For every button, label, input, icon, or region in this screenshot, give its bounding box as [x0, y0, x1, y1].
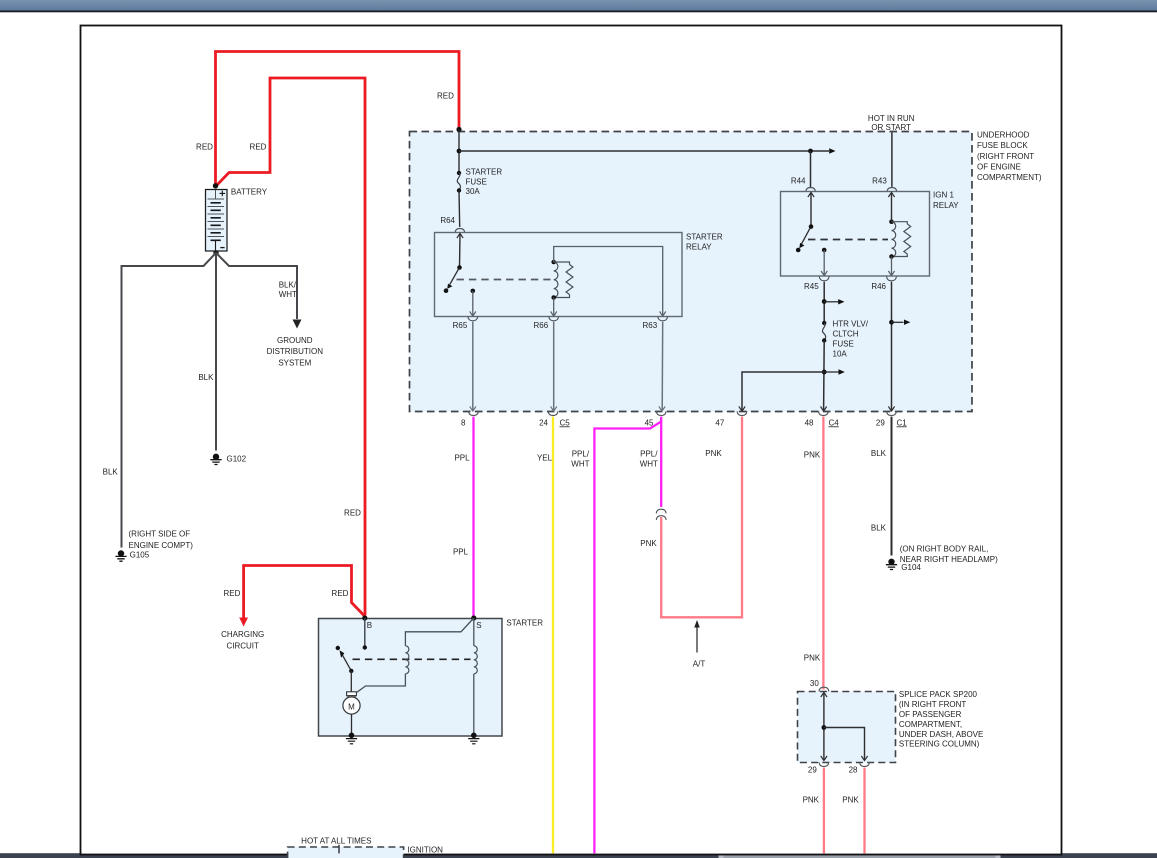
svg-text:HOT IN RUN: HOT IN RUN [868, 114, 915, 123]
svg-text:BATTERY: BATTERY [231, 188, 268, 197]
wire BLK pin29 to G104 [871, 417, 892, 556]
pins R45 R46 [804, 277, 896, 291]
ground G102 [210, 454, 246, 464]
svg-text:OF PASSENGER: OF PASSENGER [899, 710, 962, 719]
svg-text:RED: RED [223, 589, 240, 598]
red entry node on fuse block border [456, 127, 461, 132]
battery - terminal node [213, 250, 218, 255]
svg-text:RELAY: RELAY [686, 243, 712, 252]
wires relay pins down to block bottom [470, 322, 665, 411]
svg-text:IGN 1: IGN 1 [933, 191, 954, 200]
starter relay coil feeds [551, 247, 666, 317]
svg-text:BLK: BLK [871, 449, 887, 458]
svg-text:OF ENGINE: OF ENGINE [977, 162, 1021, 171]
svg-text:30: 30 [810, 679, 819, 688]
svg-text:RED: RED [344, 509, 361, 518]
svg-text:(RIGHT FRONT: (RIGHT FRONT [977, 152, 1034, 161]
wire PNK pin48 to splice pack [804, 417, 824, 690]
battery + terminal node [213, 183, 218, 188]
svg-text:PNK: PNK [803, 795, 820, 804]
wire YEL pin24 down off page [537, 417, 553, 854]
svg-text:BLK: BLK [871, 524, 887, 533]
svg-text:(IN RIGHT FRONT: (IN RIGHT FRONT [899, 700, 967, 709]
wire branch to pin 47 [739, 372, 824, 411]
wire fuse to pin 48 with branch [821, 341, 845, 412]
wire BLK to G102 [198, 253, 216, 451]
svg-text:STARTER: STARTER [506, 618, 543, 627]
svg-text:COMPARTMENT,: COMPARTMENT, [899, 720, 962, 729]
svg-text:WHT: WHT [640, 459, 658, 468]
svg-text:PNK: PNK [705, 449, 722, 458]
svg-text:BLK: BLK [198, 373, 214, 382]
starter relay dashed actuator line [457, 279, 551, 281]
starter box [319, 618, 544, 736]
IGN1 coil feeds [888, 193, 894, 276]
starter dashed actuator line [353, 658, 471, 660]
svg-text:G105: G105 [130, 551, 150, 560]
svg-text:YEL: YEL [537, 454, 553, 463]
svg-text:R45: R45 [804, 282, 819, 291]
pins R44 R43 [791, 177, 897, 192]
A/T annotation arrow [693, 620, 706, 669]
ground G104 [886, 545, 998, 572]
wire BLK/WHT to ground distribution [216, 253, 323, 368]
wire from entry node to starter fuse [458, 130, 460, 173]
starter B terminal [362, 615, 372, 649]
svg-text:RED: RED [437, 92, 454, 101]
svg-text:PNK: PNK [804, 653, 821, 662]
R46 wire to pin 29 with branch arrow [888, 282, 910, 411]
IGN 1 relay box [781, 191, 960, 277]
svg-text:B: B [367, 621, 372, 630]
IGN1 relay dashed actuator line [808, 239, 888, 241]
svg-text:PPL: PPL [453, 547, 469, 556]
svg-text:STARTER: STARTER [686, 232, 723, 241]
HTR VLV/CLTCH fuse 10A [822, 320, 869, 359]
starter relay box [435, 232, 723, 316]
battery [206, 183, 268, 255]
splice pack internal wires [821, 693, 868, 761]
svg-text:47: 47 [715, 418, 724, 427]
svg-text:30A: 30A [466, 187, 481, 196]
starter motor M [343, 671, 360, 744]
svg-text:GROUND: GROUND [277, 336, 313, 345]
branch wire to IGN1 relay R44 feed [459, 148, 836, 187]
wire PNK from connector to pin 47 (A/T loop) [640, 417, 742, 618]
svg-text:A/T: A/T [693, 660, 706, 669]
svg-text:C5: C5 [560, 418, 571, 427]
svg-text:PPL/: PPL/ [640, 449, 658, 458]
node at feed branch [457, 149, 462, 154]
bottom scrollbar bar [0, 853, 1157, 858]
svg-text:RED: RED [250, 142, 267, 151]
svg-text:FUSE: FUSE [833, 340, 854, 349]
svg-text:R64: R64 [440, 216, 455, 225]
splice pack SP200 [798, 679, 984, 763]
svg-text:8: 8 [461, 418, 466, 427]
wire BLK to G105 [103, 253, 216, 548]
svg-text:RED: RED [332, 589, 349, 598]
svg-text:IGNITION: IGNITION [407, 846, 443, 855]
pins R65 R66 R63 [453, 317, 668, 330]
svg-text:STARTER: STARTER [466, 168, 503, 177]
svg-text:29: 29 [876, 418, 885, 427]
pin R64 [440, 216, 464, 233]
battery positive red wire (to starter B) [217, 78, 366, 616]
svg-text:G102: G102 [227, 454, 247, 463]
starter S terminal [471, 615, 481, 630]
starter relay switch [444, 234, 476, 317]
IGN1 relay switch [796, 193, 827, 276]
svg-text:CLTCH: CLTCH [833, 330, 859, 339]
svg-text:SYSTEM: SYSTEM [278, 359, 311, 368]
R45 wire with branch + HTR VLV fuse [822, 282, 845, 323]
svg-text:C1: C1 [897, 418, 908, 427]
svg-text:R63: R63 [643, 321, 658, 330]
ground G105 [115, 529, 193, 561]
underhood fuse block (dashed box) [410, 131, 1042, 412]
svg-text:PPL/: PPL/ [572, 450, 590, 459]
svg-text:10A: 10A [833, 349, 848, 358]
svg-text:CHARGING: CHARGING [221, 630, 264, 639]
starter switch [336, 646, 354, 673]
wire PNK splice 28 down [842, 768, 864, 854]
svg-text:BLK: BLK [103, 468, 119, 477]
starter pull-in coil from S [357, 618, 474, 692]
starter fuse 30A [457, 168, 503, 197]
svg-text:R44: R44 [791, 177, 806, 186]
svg-text:ENGINE COMPT): ENGINE COMPT) [129, 541, 194, 550]
svg-text:G104: G104 [901, 563, 921, 572]
svg-text:WHT: WHT [571, 460, 589, 469]
svg-text:48: 48 [805, 418, 814, 427]
svg-text:(ON RIGHT BODY RAIL,: (ON RIGHT BODY RAIL, [900, 545, 989, 554]
svg-text:HTR VLV/: HTR VLV/ [833, 320, 869, 329]
svg-text:S: S [476, 621, 481, 630]
wire PNK splice 29 down [803, 768, 824, 854]
starter relay coil [551, 260, 572, 300]
splice pack pins 29 28 [808, 762, 870, 774]
wire fuse to R64 [458, 191, 461, 228]
in-line connector on pin45 wire [656, 509, 666, 520]
svg-text:CIRCUIT: CIRCUIT [226, 641, 259, 650]
svg-text:STEERING COLUMN): STEERING COLUMN) [899, 740, 980, 749]
svg-text:28: 28 [849, 765, 858, 774]
svg-text:UNDER DASH, ABOVE: UNDER DASH, ABOVE [899, 730, 983, 739]
ignition switch (bottom, cut off) [288, 836, 444, 858]
svg-text:PPL: PPL [454, 454, 470, 463]
svg-text:OR START: OR START [871, 123, 911, 132]
fuse block bottom pins [461, 411, 907, 427]
svg-text:29: 29 [808, 765, 817, 774]
svg-text:WHT: WHT [279, 290, 297, 299]
starter hold-in coil to ground [468, 618, 479, 744]
HOT IN RUN OR START feed [868, 114, 915, 187]
wire PPL pin8 to starter S [453, 417, 474, 616]
svg-text:COMPARTMENT): COMPARTMENT) [977, 173, 1042, 182]
svg-text:R65: R65 [453, 321, 468, 330]
svg-text:BLK/: BLK/ [279, 281, 297, 290]
IGN1 relay coil [889, 219, 910, 258]
wire PPL/WHT pin45 branch going down off page [571, 422, 661, 854]
browser top bar [0, 0, 1157, 11]
wire PPL/WHT pin45 vertical [640, 417, 662, 507]
svg-text:M: M [348, 702, 355, 711]
svg-text:UNDERHOOD: UNDERHOOD [977, 131, 1030, 140]
svg-text:FUSE: FUSE [466, 177, 487, 186]
battery positive red wire (to fuse block) [196, 52, 459, 186]
svg-text:RELAY: RELAY [933, 201, 959, 210]
svg-text:R46: R46 [871, 282, 886, 291]
svg-text:R43: R43 [872, 177, 887, 186]
svg-text:R66: R66 [534, 321, 549, 330]
svg-text:SPLICE PACK SP200: SPLICE PACK SP200 [899, 690, 978, 699]
svg-text:HOT AT ALL TIMES: HOT AT ALL TIMES [301, 836, 371, 845]
svg-text:PNK: PNK [640, 539, 657, 548]
svg-text:FUSE BLOCK: FUSE BLOCK [977, 141, 1028, 150]
svg-text:RED: RED [196, 142, 213, 151]
svg-text:(RIGHT SIDE OF: (RIGHT SIDE OF [129, 529, 191, 538]
svg-text:PNK: PNK [804, 451, 821, 460]
svg-text:PNK: PNK [842, 795, 859, 804]
svg-text:DISTRIBUTION: DISTRIBUTION [267, 347, 324, 356]
red branch to charging circuit [221, 566, 364, 651]
svg-text:24: 24 [539, 418, 548, 427]
svg-text:C4: C4 [829, 418, 840, 427]
